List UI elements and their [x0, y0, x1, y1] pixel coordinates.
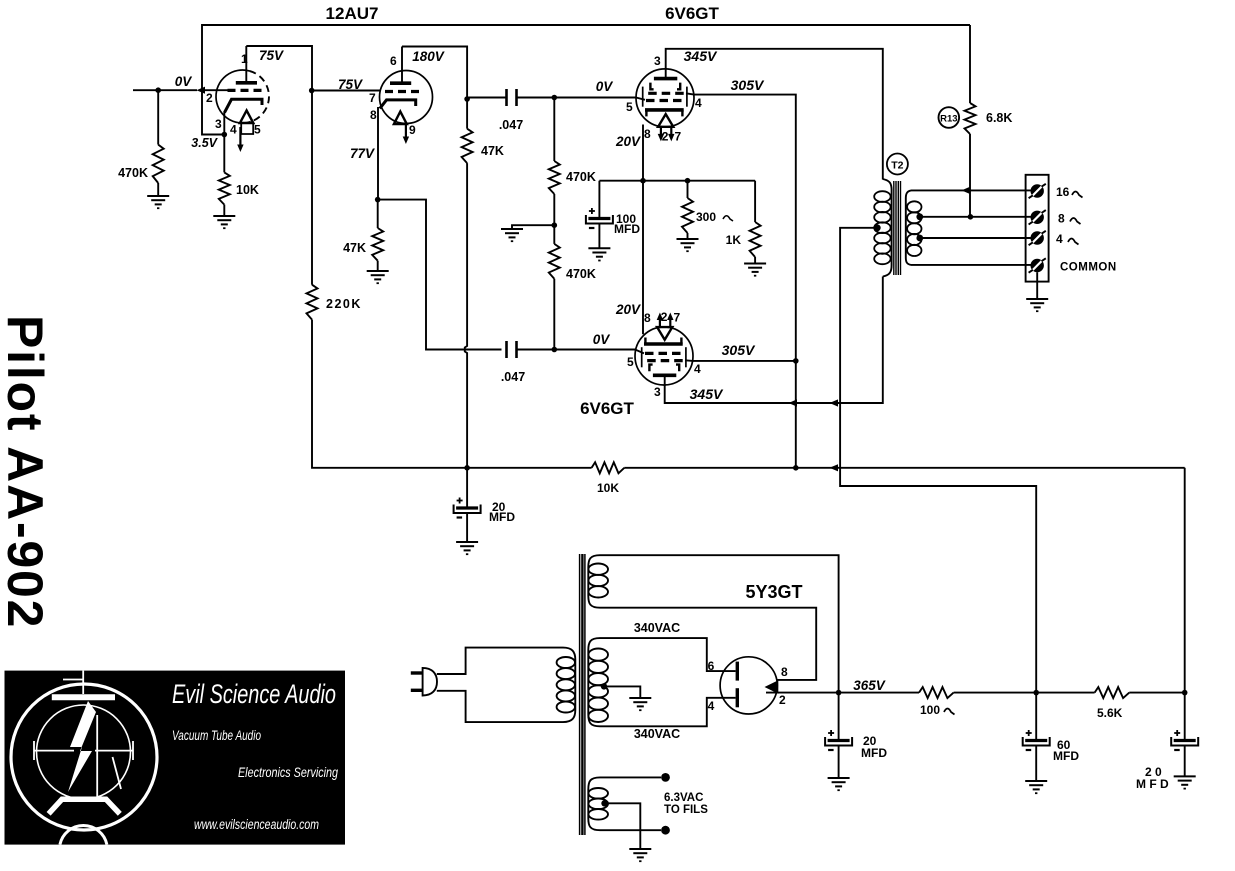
svg-text:20V: 20V	[615, 302, 641, 317]
junction screens at rail	[793, 465, 799, 471]
ground below 10K	[213, 216, 235, 228]
svg-text:COMMON: COMMON	[1060, 262, 1117, 274]
pin 5 label	[254, 123, 261, 137]
svg-text:470K: 470K	[566, 170, 596, 184]
label 75V plate V1a	[259, 48, 284, 63]
capacitor C 20MFD preamp	[454, 498, 481, 518]
svg-text:M F D: M F D	[1136, 777, 1169, 791]
terminal strip outline	[1026, 175, 1049, 282]
label 5.6K	[1097, 706, 1123, 720]
svg-text:77V: 77V	[350, 146, 375, 161]
label 75V grid V1b	[338, 77, 363, 92]
svg-text:5: 5	[626, 100, 633, 114]
svg-text:0V: 0V	[175, 74, 193, 89]
wire 6.3V top lead	[600, 773, 670, 782]
svg-text:305V: 305V	[731, 77, 765, 93]
svg-text:6: 6	[390, 54, 397, 68]
svg-text:8: 8	[1058, 212, 1065, 226]
wire 6.3V CT to ground	[605, 803, 641, 849]
wire HV top to pin6	[600, 638, 736, 671]
terminal 16 ohm	[1029, 184, 1046, 198]
svg-text:MFD: MFD	[861, 746, 887, 760]
svg-text:5: 5	[627, 355, 634, 369]
wire 6.3V bottom lead	[600, 826, 670, 835]
wire common to ground	[1036, 272, 1038, 299]
junction 75V node	[309, 88, 315, 94]
resistor R 300 ohm	[682, 181, 693, 233]
terminal common	[1029, 258, 1046, 272]
svg-text:365V: 365V	[853, 678, 886, 693]
wire B+ rail right	[624, 467, 1184, 469]
svg-text:6V6GT: 6V6GT	[665, 4, 719, 23]
resistor R 100 ohm	[919, 687, 954, 698]
wire 6V6 cathode vertical	[642, 125, 644, 335]
pin 4 label 5Y3	[708, 699, 715, 713]
label 10K rail	[597, 481, 619, 495]
svg-text:2: 2	[779, 693, 786, 707]
pin 2 label upper 6V6	[662, 130, 669, 144]
svg-text:6.3VAC: 6.3VAC	[664, 792, 703, 804]
wire 6.8K to 8 ohm tap	[968, 134, 974, 220]
svg-text:20V: 20V	[615, 134, 641, 149]
label 3.5V	[191, 136, 218, 150]
capacitor C 20MFD 365V	[825, 693, 852, 778]
transformer T2 label circle	[887, 154, 908, 175]
logo text Vacuum Tube Audio	[172, 728, 261, 743]
svg-text:8: 8	[644, 127, 651, 141]
wire 8 ohm tap	[916, 213, 1031, 220]
svg-text:.047: .047	[501, 370, 525, 384]
label 345V upper	[684, 48, 718, 64]
junction HV center tap	[601, 683, 607, 689]
label 365V	[853, 678, 886, 693]
transformer T1 6.3V winding	[588, 777, 608, 830]
resistor R 10K cathode V1a	[219, 135, 230, 205]
wire 470K mid	[553, 194, 555, 244]
svg-text:Electronics Servicing: Electronics Servicing	[238, 765, 338, 780]
ground 6.3V center tap	[629, 849, 651, 861]
wire HV CT to ground	[604, 686, 640, 698]
svg-text:180V: 180V	[412, 49, 445, 64]
node input 0V wire	[133, 89, 197, 91]
junction 20MFD right node	[1182, 690, 1188, 696]
wire V1a plate to 75V node	[246, 46, 312, 91]
junction cathode rail left tube	[640, 178, 646, 184]
junction lower grid/470K	[552, 347, 558, 353]
resistor R 5.6K	[1095, 687, 1130, 698]
pin 8 label	[370, 108, 377, 122]
wire 47K to rail with jog	[465, 163, 467, 468]
logo Evil Science Audio emblem	[5, 671, 346, 845]
wire 20MFD preamp lead	[466, 468, 468, 508]
wire 5V top to 365V node	[600, 555, 839, 692]
svg-text:2: 2	[661, 310, 668, 324]
wire 16 ohm tap	[911, 189, 1031, 191]
label 20V upper	[615, 134, 641, 149]
label 10K V1a	[236, 183, 259, 197]
svg-text:0V: 0V	[593, 332, 611, 347]
junction input/470K	[155, 87, 161, 93]
label 5Y3GT	[745, 582, 802, 602]
svg-text:470K: 470K	[118, 166, 148, 180]
label 20 MFD preamp	[489, 500, 515, 524]
wire V1a grid entry	[203, 89, 228, 91]
wire 10K to ground	[223, 205, 225, 216]
pin 5 label upper 6V6	[626, 100, 633, 114]
wire 100MFD lead	[598, 181, 600, 219]
junction screens 305V	[793, 358, 799, 364]
terminal 4 ohm	[1029, 231, 1046, 245]
label 470K upper	[566, 170, 596, 184]
svg-text:220K: 220K	[326, 297, 362, 311]
label 47K cathode	[343, 241, 366, 255]
label 6V6GT top	[665, 4, 719, 23]
label 340VAC bottom	[634, 727, 680, 741]
label 77V	[350, 146, 375, 161]
svg-text:6.8K: 6.8K	[986, 111, 1012, 125]
label .047 lower	[501, 370, 525, 384]
wire 75V node down	[311, 91, 313, 285]
pin 6 label 5Y3	[708, 659, 715, 673]
label 60 MFD	[1053, 738, 1079, 763]
capacitor C 20MFD right	[1171, 693, 1198, 777]
resistor R13 6.8K	[965, 103, 976, 134]
wire B+ rail left	[591, 467, 593, 469]
pin 8 label 5Y3	[781, 665, 788, 679]
label 470K	[118, 166, 148, 180]
pin 2 label lower 6V6	[661, 310, 668, 324]
wire 5.6K to 20MFD node	[1129, 692, 1184, 694]
label R13 circle	[939, 107, 960, 128]
pin 3 label	[215, 117, 222, 131]
label 0V lower	[593, 332, 611, 347]
pin 4 label	[230, 123, 237, 137]
logo text Evil Science Audio	[172, 679, 336, 709]
svg-text:5.6K: 5.6K	[1097, 706, 1123, 720]
svg-text:MFD: MFD	[614, 222, 640, 236]
crossover arrow 16ohm at feedback	[962, 187, 971, 194]
svg-text:12AU7: 12AU7	[326, 4, 379, 23]
label 340VAC top	[634, 621, 680, 635]
svg-text:6V6GT: 6V6GT	[580, 399, 634, 418]
junction 47K at rail marker	[0, 0, 1, 1]
svg-text:1: 1	[241, 52, 248, 66]
label .047 upper	[499, 118, 523, 132]
wire 220K to B+ rail	[312, 320, 592, 468]
wire plug to primary loop	[437, 648, 563, 723]
label 8 ohm	[1058, 212, 1081, 226]
junction T2 CT	[874, 224, 881, 231]
svg-text:TO FILS: TO FILS	[664, 804, 708, 816]
svg-text:2: 2	[206, 91, 213, 105]
pin 5 label lower 6V6	[627, 355, 634, 369]
title Pilot AA-902	[0, 315, 53, 629]
svg-text:9: 9	[409, 123, 416, 137]
wire top rail to 6.8K	[969, 25, 971, 103]
svg-text:1K: 1K	[726, 233, 742, 247]
AC plug	[411, 668, 437, 696]
junction 3.5V cathode node	[222, 132, 228, 138]
svg-text:0V: 0V	[596, 79, 614, 94]
capacitor C .047 lower	[507, 341, 636, 358]
svg-text:340VAC: 340VAC	[634, 727, 680, 741]
pin 8 label upper 6V6	[644, 127, 651, 141]
resistor R 10K rail	[592, 462, 625, 473]
wire upper 6V6 plate 345V	[666, 49, 883, 180]
wire to ground 47K cathode	[377, 261, 379, 271]
wire T2 primary center tap	[840, 228, 1036, 694]
tube V2 6V6GT upper	[636, 68, 694, 141]
svg-text:Vacuum Tube Audio: Vacuum Tube Audio	[172, 728, 261, 743]
wire 470K chain upper	[553, 98, 555, 162]
svg-text:470K: 470K	[566, 267, 596, 281]
pin 9 label	[409, 123, 416, 137]
transformer T1 HV winding	[588, 638, 608, 726]
svg-text:8: 8	[644, 311, 651, 325]
svg-text:47K: 47K	[481, 144, 504, 158]
junction 47K line at rail	[464, 465, 470, 471]
svg-text:R13: R13	[940, 114, 957, 125]
crossover arrow rail at CT line	[830, 464, 839, 471]
label 305V upper	[731, 77, 765, 93]
ground below 470K	[147, 196, 169, 208]
svg-text:305V: 305V	[722, 342, 756, 358]
tube V3 6V6GT lower	[635, 313, 693, 387]
label 6.3VAC TO FILS	[664, 792, 708, 816]
pin 3 label upper 6V6	[654, 54, 661, 68]
wire 5V bottom to pin8	[600, 608, 816, 680]
junction upper grid/470K	[552, 95, 558, 101]
junction 470K midpoint	[552, 222, 558, 228]
svg-text:75V: 75V	[259, 48, 284, 63]
label 20V lower	[615, 302, 641, 317]
wire lower 6V6 screen 305V	[685, 359, 796, 362]
svg-text:3: 3	[654, 54, 661, 68]
label 220K	[326, 297, 362, 311]
label 0V upper	[596, 79, 614, 94]
label 100 MFD	[614, 212, 640, 236]
wire 4 ohm tap	[916, 235, 1031, 242]
pin 3 label lower 6V6	[654, 385, 661, 399]
label 305V lower	[722, 342, 756, 358]
resistor R 47K cathode	[372, 228, 383, 261]
ground HV center tap	[629, 698, 651, 710]
wire 1K ground	[754, 257, 756, 264]
wire 100ohm to 60MFD node	[954, 692, 1095, 694]
junction 365V node	[836, 690, 842, 696]
wire common tap	[911, 264, 1031, 266]
label 4 ohm	[1056, 232, 1079, 246]
wire feedback top rail	[202, 25, 970, 135]
svg-text:16: 16	[1056, 185, 1070, 199]
capacitor C 100MFD	[586, 208, 613, 228]
svg-text:7: 7	[369, 91, 376, 105]
wire V1b plate to 47K line	[402, 47, 467, 98]
resistor R 470K upper	[549, 161, 560, 194]
svg-text:10K: 10K	[597, 481, 619, 495]
label 300 ohm	[696, 210, 733, 224]
label 6V6GT bottom	[580, 399, 634, 418]
wire screens vertical lower	[795, 361, 797, 468]
svg-text:4: 4	[695, 96, 702, 110]
pin 7 label upper 6V6	[675, 130, 682, 144]
ground below 1K	[744, 264, 766, 276]
label COMMON	[1060, 262, 1117, 274]
ground 470K midpoint	[501, 229, 523, 241]
wire cathode to lower .047	[378, 200, 502, 350]
tube V4 5Y3GT	[720, 657, 778, 714]
svg-text:MFD: MFD	[489, 510, 515, 524]
crossover arrow at feedback line	[197, 87, 206, 94]
label 0V input	[175, 74, 193, 89]
svg-text:4: 4	[708, 699, 715, 713]
wire upper 6V6 grid entry	[636, 98, 645, 100]
svg-text:3: 3	[215, 117, 222, 131]
wire rail to 20MFD node	[1184, 468, 1186, 693]
wire lower 6V6 grid entry	[635, 350, 644, 354]
resistor R 470K input	[153, 90, 164, 196]
resistor R 220K	[307, 285, 318, 320]
svg-text:300: 300	[696, 210, 716, 224]
label 1K	[726, 233, 742, 247]
wire midpoint to ground	[512, 225, 554, 229]
svg-text:3.5V: 3.5V	[191, 136, 218, 150]
svg-text:.047: .047	[499, 118, 523, 132]
tube V1 12AU7 section A	[216, 46, 269, 152]
resistor R 47K plate load	[462, 129, 473, 163]
ground below 300 ohm	[677, 239, 699, 251]
label 100 ohm	[920, 703, 955, 717]
label 12AU7	[326, 4, 379, 23]
svg-text:4: 4	[230, 123, 237, 137]
crossover arrow 345V at screen line	[789, 399, 798, 406]
wire down to 47K	[466, 99, 468, 129]
transformer T1 primary	[557, 648, 576, 723]
pin 4 label lower 6V6	[694, 362, 701, 376]
svg-text:MFD: MFD	[1053, 749, 1079, 763]
svg-text:345V: 345V	[690, 386, 724, 402]
ground below 20MFD preamp	[456, 542, 478, 554]
logo text Electronics Servicing	[238, 765, 338, 780]
pin 7 label lower 6V6	[674, 311, 681, 325]
svg-text:3: 3	[654, 385, 661, 399]
pin 1 label	[241, 52, 248, 66]
ground below 20MFD right	[1174, 776, 1196, 788]
wire 365V rail	[766, 692, 919, 694]
junction 77V cathode node	[375, 197, 381, 203]
resistor R 1K	[750, 181, 761, 257]
wire lower 6V6 plate 345V	[665, 277, 883, 404]
label 16 ohm	[1056, 185, 1083, 199]
label 345V lower	[690, 386, 724, 402]
wire 47K cathode	[377, 200, 379, 228]
terminal 8 ohm	[1029, 210, 1046, 224]
wire 75V node to V1b grid	[312, 90, 380, 92]
pin 2 label 5Y3	[779, 693, 786, 707]
ground below 47K cathode	[367, 271, 389, 283]
logo text www	[194, 817, 319, 832]
pin 6 label	[390, 54, 397, 68]
junction cathode rail 300ohm	[685, 178, 691, 184]
svg-text:5: 5	[254, 123, 261, 137]
label 6.8K	[986, 111, 1012, 125]
pin 4 label upper 6V6	[695, 96, 702, 110]
wire 300 ohm ground	[687, 233, 689, 239]
capacitor C .047 upper	[467, 89, 636, 106]
wire 100MFD to ground	[598, 224, 600, 249]
svg-text:47K: 47K	[343, 241, 366, 255]
wire 20MFD preamp ground	[466, 513, 468, 542]
transformer T2 core	[894, 181, 901, 275]
ground below common	[1026, 299, 1048, 311]
transformer T1 core	[580, 554, 585, 835]
svg-text:T2: T2	[891, 160, 903, 172]
wire upper 6V6 screen 305V	[686, 93, 796, 361]
pin 8 label lower 6V6	[644, 311, 651, 325]
ground below 20MFD 365V	[828, 778, 850, 790]
junction 60MFD node	[1033, 690, 1039, 696]
ground below 100MFD	[588, 248, 610, 260]
svg-text:8: 8	[781, 665, 788, 679]
label 20 MFD right	[1136, 765, 1169, 791]
svg-text:100: 100	[920, 703, 940, 717]
label 180V	[412, 49, 445, 64]
svg-text:7: 7	[674, 311, 681, 325]
svg-text:www.evilscienceaudio.com: www.evilscienceaudio.com	[194, 817, 319, 832]
svg-text:7: 7	[675, 130, 682, 144]
svg-text:5Y3GT: 5Y3GT	[745, 582, 802, 602]
junction 6.3V center tap	[601, 800, 607, 806]
svg-text:4: 4	[694, 362, 701, 376]
wire cathode rail	[599, 180, 755, 182]
svg-text:2: 2	[662, 130, 669, 144]
capacitor C 60MFD	[1023, 693, 1050, 781]
label 47K plate	[481, 144, 504, 158]
crossover arrow 345V at CT line	[830, 399, 839, 406]
transformer T2 primary	[874, 179, 891, 277]
label 20 MFD 365V	[861, 734, 887, 760]
svg-text:6: 6	[708, 659, 715, 673]
wire 470K chain lower	[553, 279, 555, 350]
svg-text:10K: 10K	[236, 183, 259, 197]
svg-text:8: 8	[370, 108, 377, 122]
svg-text:345V: 345V	[684, 48, 718, 64]
ground below 60MFD	[1025, 781, 1047, 793]
pin 7 label	[369, 91, 376, 105]
svg-text:Pilot AA-902: Pilot AA-902	[0, 315, 53, 629]
transformer T2 secondary	[906, 190, 922, 265]
label 470K lower	[566, 267, 596, 281]
resistor R 470K lower	[549, 244, 560, 279]
tube V1 12AU7 section B	[378, 47, 433, 200]
pin 2 label	[206, 91, 213, 105]
svg-text:340VAC: 340VAC	[634, 621, 680, 635]
wire HV bottom to pin4	[600, 698, 736, 727]
svg-text:4: 4	[1056, 232, 1063, 246]
svg-text:Evil Science Audio: Evil Science Audio	[172, 679, 336, 709]
transformer T1 5V winding	[588, 555, 608, 608]
junction plate/cap node	[464, 96, 470, 102]
